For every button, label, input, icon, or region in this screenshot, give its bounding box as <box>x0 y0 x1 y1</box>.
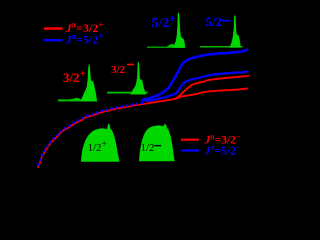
inset A baseline small bump <box>166 44 175 48</box>
wire red2 curve (3/2- branch) <box>176 89 247 99</box>
inset C baseline (3/2+ green baseline) <box>58 99 96 101</box>
node red1 end dot <box>248 75 250 77</box>
inset D baseline (3/2- green baseline) <box>107 92 148 94</box>
wire blue dashed overlay on low-energy pair (5/2 low-E branch) <box>38 103 144 166</box>
inset A peak (5/2+ green spike) <box>172 12 185 47</box>
legend top: red sample line <box>44 27 63 29</box>
bump E (1/2+ broad green bump) <box>81 124 120 162</box>
inset D peak (3/2- green spike) <box>130 62 146 95</box>
svg-text:Jπ=5/2+: Jπ=5/2+ <box>65 31 104 47</box>
legend top: blue sample line <box>44 39 63 41</box>
inset C baseline small hump <box>65 98 81 101</box>
bump F (1/2- broad green bump) <box>139 124 175 161</box>
wire second blue curve (5/2- branch) <box>146 72 248 102</box>
inset B peak (5/2- green spike) <box>229 15 240 48</box>
svg-text:Jπ=5/2−: Jπ=5/2− <box>204 143 241 157</box>
svg-text:3/2: 3/2 <box>111 64 126 76</box>
svg-text:1/2: 1/2 <box>141 142 155 154</box>
inset B baseline (5/2- green baseline) <box>200 46 243 48</box>
legend bottom: red sample line <box>181 139 199 141</box>
legend bottom: blue sample line <box>181 149 199 151</box>
svg-text:5/2: 5/2 <box>206 14 223 29</box>
wire low-energy pair: red solid curve (3/2 low-E branch) <box>38 99 176 167</box>
inset A baseline (5/2+ green baseline) <box>147 46 185 48</box>
inset C peak (3/2+ green spike) <box>80 64 97 101</box>
wire main blue curve (5/2+ resonance S-curve) <box>142 50 247 101</box>
wire red1 curve (3/2+ branch) <box>174 76 247 99</box>
